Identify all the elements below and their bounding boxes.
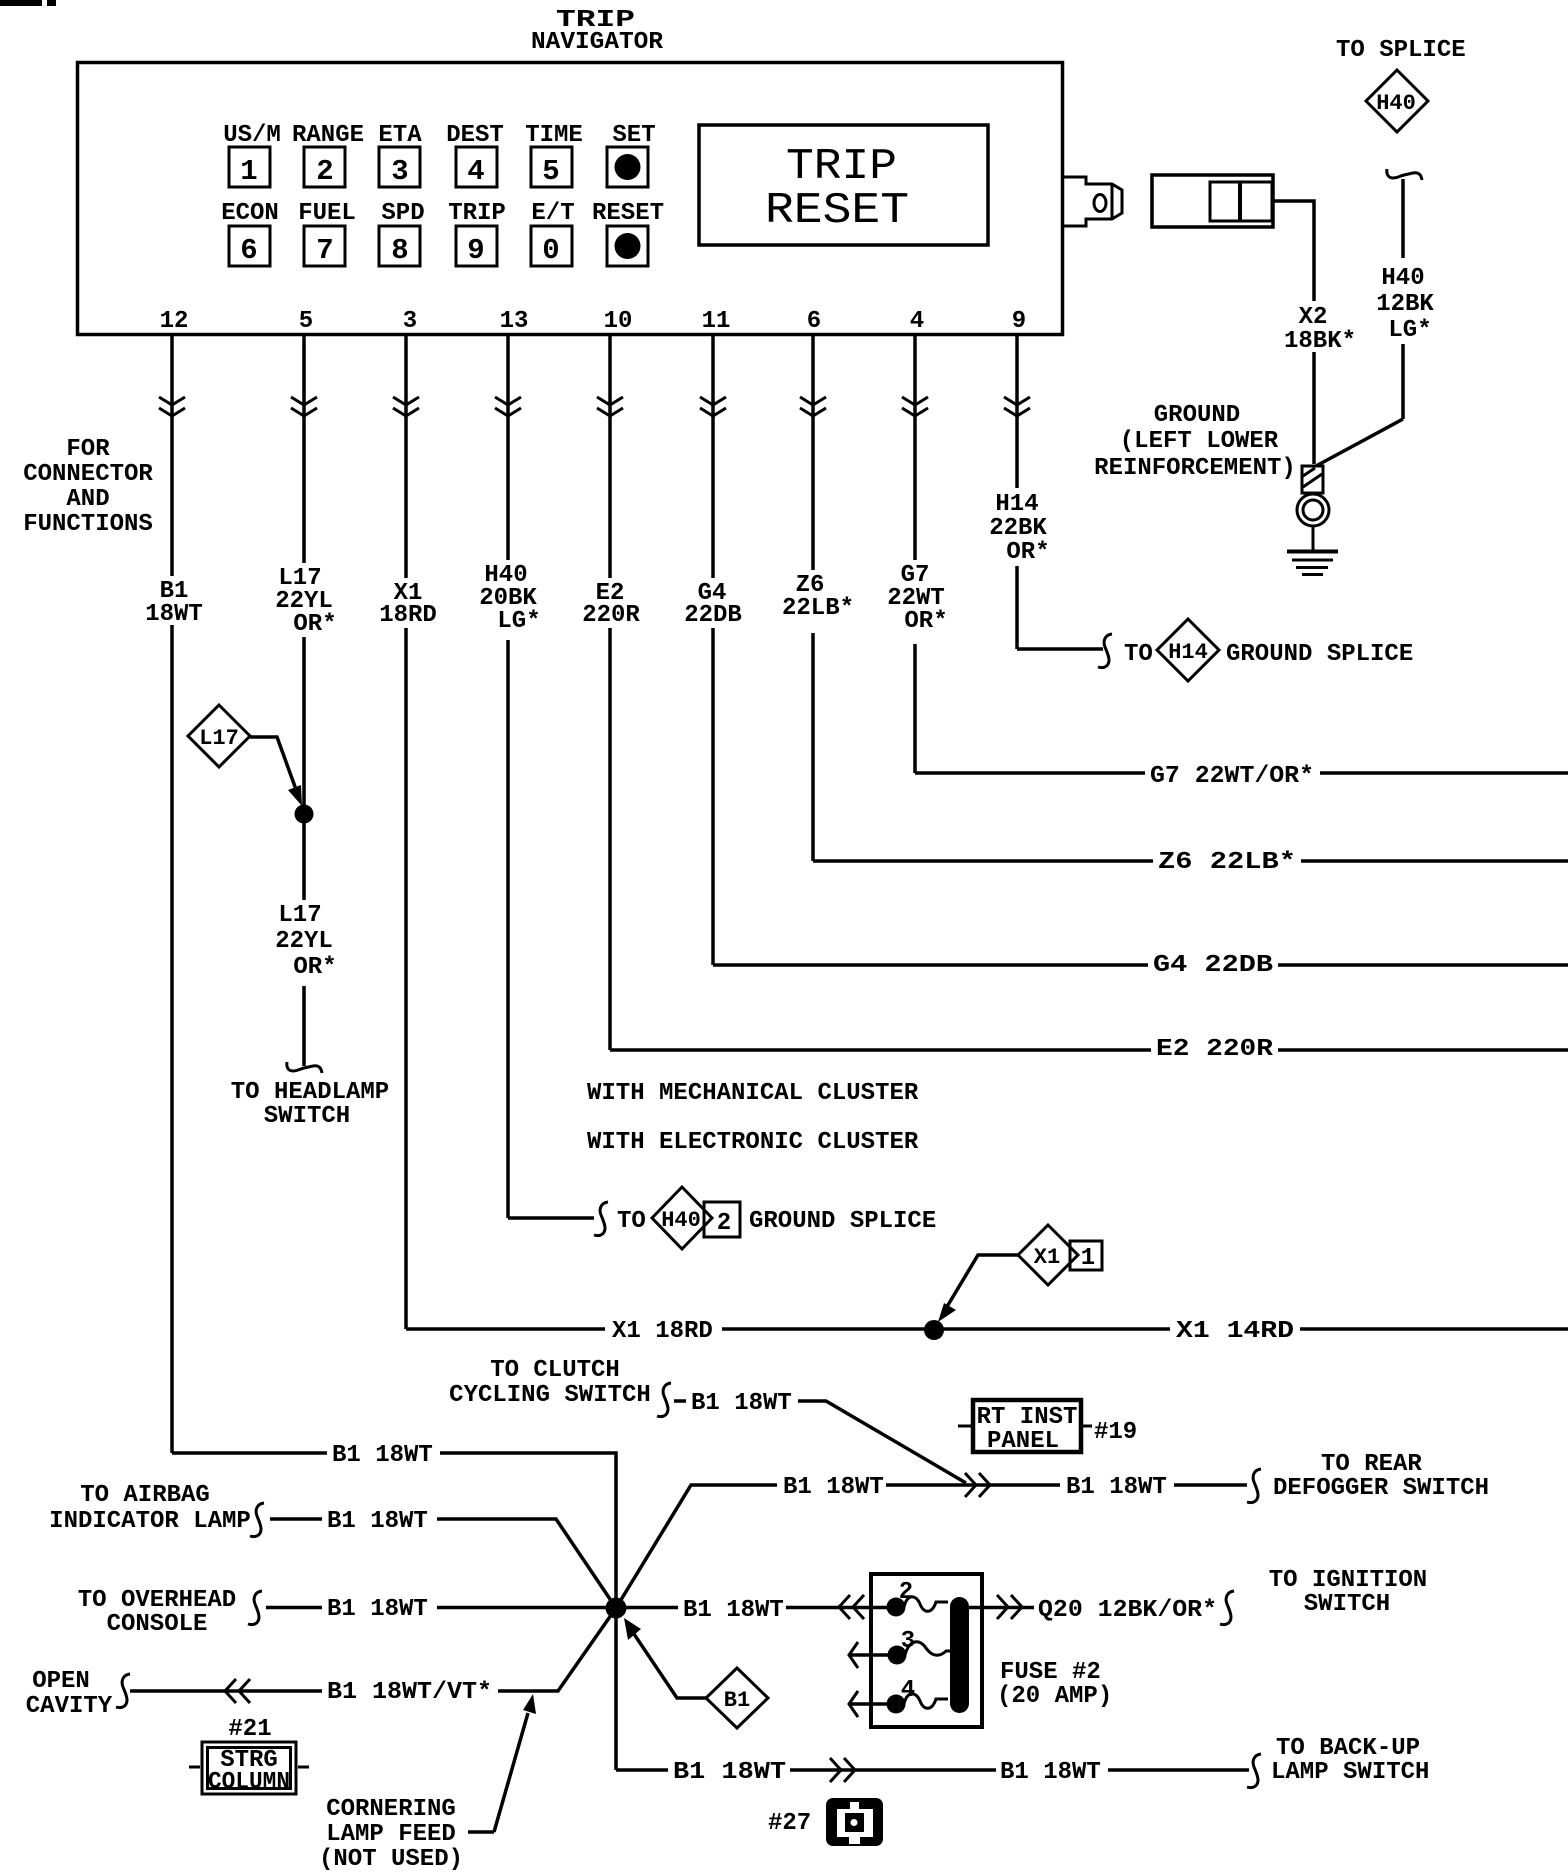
svg-text:1: 1 [240, 155, 257, 188]
splice symbol L17 [188, 705, 250, 767]
svg-text:RESET: RESET [765, 186, 909, 236]
break squiggle H14 [1098, 634, 1112, 668]
inline connector chevron to fuse [839, 1595, 864, 1619]
svg-text:22BK: 22BK [989, 515, 1047, 542]
label X2 18BK* [1284, 304, 1356, 355]
svg-text:LG*: LG* [1388, 317, 1431, 344]
text GROUND (LEFT LOWER REINFORCEMENT) [1094, 402, 1296, 482]
svg-text:22DB: 22DB [684, 602, 742, 629]
svg-text:B1 18WT: B1 18WT [691, 1390, 792, 1417]
wire B1 row from pin12 [172, 1453, 616, 1770]
splice symbol H40-2 [652, 1187, 740, 1249]
wire H40 12BK LG* [1316, 179, 1403, 466]
svg-text:(NOT USED): (NOT USED) [319, 1846, 463, 1873]
svg-text:OR*: OR* [1006, 539, 1049, 566]
wire G4 horizontal run [713, 963, 1568, 967]
svg-text:CORNERING: CORNERING [326, 1796, 456, 1823]
break squiggle H40-2 [594, 1202, 608, 1236]
svg-text:L17: L17 [278, 902, 321, 929]
svg-text:X1 14RD: X1 14RD [1176, 1318, 1294, 1345]
svg-text:TO BACK-UP: TO BACK-UP [1276, 1735, 1420, 1762]
fuse terminal 4 [887, 1695, 906, 1714]
label L17 22YL OR* lower [275, 902, 336, 981]
svg-text:GROUND SPLICE: GROUND SPLICE [749, 1208, 936, 1235]
svg-text:DEST: DEST [446, 122, 504, 149]
svg-text:TRIP: TRIP [448, 200, 506, 227]
connector chevron pin9 [1004, 397, 1030, 416]
svg-text:OR*: OR* [293, 954, 336, 981]
label E2 220R [582, 580, 640, 629]
text TO BACK-UP LAMP SWITCH [1271, 1735, 1429, 1786]
svg-text:8: 8 [391, 234, 408, 267]
svg-text:H40: H40 [661, 1208, 701, 1233]
svg-text:TO AIRBAG: TO AIRBAG [80, 1482, 210, 1509]
svg-text:18WT: 18WT [145, 601, 203, 628]
title TRIP NAVIGATOR [531, 7, 664, 56]
svg-text:B1 18WT/VT*: B1 18WT/VT* [327, 1679, 492, 1706]
wire pin4 G7 vertical [913, 335, 917, 773]
svg-text:(LEFT LOWER: (LEFT LOWER [1120, 428, 1279, 455]
display TRIP RESET [699, 125, 988, 245]
inline connector chevron backup [830, 1758, 855, 1782]
svg-text:B1 18WT: B1 18WT [327, 1596, 428, 1623]
svg-text:2: 2 [717, 1210, 731, 1237]
wire fuse pin3 stub [849, 1642, 888, 1668]
svg-text:TO SPLICE: TO SPLICE [1336, 37, 1466, 64]
svg-text:7: 7 [316, 234, 333, 267]
splice symbol B1 [706, 1668, 768, 1728]
inline connector chevron defogger [965, 1473, 990, 1497]
svg-text:TRIP: TRIP [786, 142, 897, 192]
svg-text:H14: H14 [995, 491, 1038, 518]
splice symbol H40 top [1366, 70, 1428, 132]
svg-text:GROUND SPLICE: GROUND SPLICE [1226, 641, 1413, 668]
svg-text:RT INST: RT INST [977, 1404, 1078, 1431]
connector chevron pin4 [902, 397, 928, 416]
svg-text:PANEL: PANEL [987, 1428, 1059, 1455]
leader arrow X1 to node [938, 1255, 1018, 1322]
button 0 [531, 226, 572, 267]
text TO AIRBAG INDICATOR LAMP [49, 1482, 251, 1535]
wire pin13 H40 vertical [506, 335, 510, 1218]
label H40 12BK LG* [1376, 265, 1434, 344]
svg-text:3: 3 [403, 308, 417, 335]
svg-text:B1 18WT: B1 18WT [683, 1597, 784, 1624]
svg-text:E2 220R: E2 220R [1156, 1036, 1274, 1063]
wire backup row B1 18WT [616, 1768, 1249, 1772]
button RESET [607, 226, 648, 266]
svg-text:#19: #19 [1094, 1419, 1137, 1446]
svg-text:TO IGNITION: TO IGNITION [1269, 1567, 1427, 1594]
button 2 [304, 147, 345, 188]
svg-text:WITH MECHANICAL CLUSTER: WITH MECHANICAL CLUSTER [587, 1080, 919, 1107]
svg-text:DEFOGGER SWITCH: DEFOGGER SWITCH [1273, 1475, 1489, 1502]
fuse element 4 [904, 1694, 948, 1708]
svg-text:4: 4 [910, 308, 924, 335]
svg-text:TO: TO [1124, 641, 1153, 668]
wire Z6 horizontal run [813, 859, 1568, 863]
svg-text:LG*: LG* [497, 608, 540, 635]
svg-text:TO: TO [617, 1208, 646, 1235]
button 3 [379, 147, 420, 188]
svg-text:5: 5 [299, 308, 313, 335]
svg-text:12BK: 12BK [1376, 291, 1434, 318]
wire overhead B1 18WT [266, 1606, 606, 1610]
svg-text:SWITCH: SWITCH [1304, 1591, 1390, 1618]
connector tab on module [1064, 177, 1122, 226]
ground symbol (left lower reinforcement) [1287, 526, 1338, 575]
svg-text:FUEL: FUEL [298, 200, 356, 227]
svg-text:9: 9 [467, 234, 484, 267]
svg-text:ETA: ETA [378, 122, 422, 149]
wire junction to fuse B1 18WT [626, 1606, 888, 1610]
wire airbag B1 18WT [270, 1519, 616, 1608]
svg-text:22YL: 22YL [275, 928, 333, 955]
text TO OVERHEAD CONSOLE [78, 1587, 236, 1638]
svg-text:FUSE #2: FUSE #2 [1000, 1659, 1101, 1686]
wire defogger row B1 18WT [616, 1485, 1247, 1608]
svg-text:6: 6 [807, 308, 821, 335]
button 9 [456, 226, 497, 267]
wire pin10 E2 vertical [608, 335, 612, 1050]
leader arrow B1 to junction [624, 1618, 706, 1698]
svg-text:B1 18WT: B1 18WT [673, 1759, 786, 1786]
connector icon #27 [826, 1798, 883, 1846]
label G4 22DB [684, 580, 742, 629]
svg-text:OPEN: OPEN [32, 1668, 90, 1695]
svg-text:12: 12 [160, 308, 189, 335]
inline connector chevron Q20 [997, 1595, 1022, 1619]
connector chevron pin5 [291, 397, 317, 416]
corner crop mark [0, 0, 42, 6]
wire break hook headlamp [287, 1062, 322, 1073]
wire X1 horizontal run [406, 1327, 1568, 1331]
svg-text:CAVITY: CAVITY [26, 1693, 113, 1720]
svg-text:LAMP FEED: LAMP FEED [326, 1821, 456, 1848]
svg-text:TIME: TIME [525, 122, 583, 149]
svg-text:1: 1 [1081, 1245, 1095, 1272]
button 4 [456, 147, 497, 188]
svg-text:SET: SET [612, 122, 655, 149]
text TO REAR DEFOGGER SWITCH [1273, 1451, 1489, 1502]
svg-text:TO OVERHEAD: TO OVERHEAD [78, 1587, 236, 1614]
svg-text:H14: H14 [1168, 640, 1208, 665]
svg-text:3: 3 [391, 155, 408, 188]
break squiggle backup [1247, 1754, 1261, 1788]
svg-text:AND: AND [66, 486, 109, 513]
svg-text:NAVIGATOR: NAVIGATOR [531, 29, 664, 56]
break squiggle overhead [248, 1591, 262, 1625]
break squiggle defogger [1247, 1469, 1261, 1503]
svg-text:L17: L17 [199, 726, 239, 751]
svg-text:FOR: FOR [66, 436, 110, 463]
svg-text:GROUND: GROUND [1154, 402, 1240, 429]
node L17 junction dot [295, 805, 314, 824]
button 1 [229, 147, 270, 188]
svg-text:OR*: OR* [293, 611, 336, 638]
break squiggle clutch [657, 1383, 671, 1417]
wire G7 horizontal run [915, 771, 1568, 775]
svg-text:FUNCTIONS: FUNCTIONS [23, 511, 153, 538]
splice symbol X1-1 [1018, 1225, 1102, 1285]
svg-text:WITH ELECTRONIC CLUSTER: WITH ELECTRONIC CLUSTER [587, 1129, 919, 1156]
svg-text:Q20 12BK/OR*: Q20 12BK/OR* [1038, 1597, 1217, 1624]
wire H40 to ground splice [508, 1216, 594, 1220]
svg-text:X1 18RD: X1 18RD [612, 1318, 713, 1345]
svg-text:22LB*: 22LB* [782, 595, 854, 622]
label G7 22WT OR* [887, 562, 947, 635]
svg-text:RANGE: RANGE [292, 122, 364, 149]
text TO HEADLAMP SWITCH [231, 1079, 389, 1130]
svg-text:TO HEADLAMP: TO HEADLAMP [231, 1079, 389, 1106]
button SET [607, 147, 648, 187]
connector chevron pin3 [393, 397, 419, 416]
svg-text:9: 9 [1012, 308, 1026, 335]
svg-text:RESET: RESET [592, 200, 664, 227]
connector plug X2 [1152, 175, 1273, 227]
svg-text:TO CLUTCH: TO CLUTCH [490, 1357, 620, 1384]
button 8 [379, 226, 420, 267]
fuse bus bar [950, 1597, 969, 1713]
svg-text:LAMP SWITCH: LAMP SWITCH [1271, 1759, 1429, 1786]
svg-text:B1 18WT: B1 18WT [332, 1442, 433, 1469]
svg-text:COLUMN: COLUMN [208, 1769, 290, 1796]
svg-text:B1 18WT: B1 18WT [1000, 1759, 1101, 1786]
button 6 [229, 226, 270, 267]
svg-text:E/T: E/T [531, 200, 574, 227]
svg-text:REINFORCEMENT): REINFORCEMENT) [1094, 455, 1296, 482]
wire clutch B1 18WT [674, 1401, 966, 1483]
svg-text:INDICATOR LAMP: INDICATOR LAMP [49, 1508, 251, 1535]
label H40 20BK LG* [479, 562, 540, 635]
svg-text:CYCLING SWITCH: CYCLING SWITCH [449, 1382, 651, 1409]
svg-text:US/M: US/M [223, 122, 281, 149]
break squiggle open cavity [116, 1674, 130, 1708]
svg-text:CONNECTOR: CONNECTOR [23, 461, 153, 488]
wire fuse pin4 stub [849, 1691, 888, 1717]
svg-text:TO REAR: TO REAR [1321, 1451, 1422, 1478]
svg-text:0: 0 [542, 234, 559, 267]
leader arrow L17 to node [250, 737, 302, 806]
component fuse #2 block [871, 1574, 982, 1727]
svg-text:6: 6 [240, 234, 257, 267]
svg-text:SPD: SPD [381, 200, 424, 227]
label Z6 22LB* [782, 572, 854, 622]
label H14 22BK OR* [989, 491, 1049, 566]
svg-text:10: 10 [604, 308, 633, 335]
wire pin6 Z6 vertical [811, 335, 815, 861]
label L17 22YL OR* [275, 565, 336, 638]
text CORNERING LAMP FEED (NOT USED) [319, 1796, 463, 1873]
svg-text:B1: B1 [724, 1688, 750, 1713]
svg-text:5: 5 [542, 155, 559, 188]
text TO CLUTCH CYCLING SWITCH [449, 1357, 651, 1409]
ground eyelet terminal [1297, 466, 1329, 526]
connector chevron pin12 [159, 397, 185, 416]
svg-text:G7 22WT/OR*: G7 22WT/OR* [1150, 763, 1314, 790]
wire pin11 G4 vertical [711, 335, 715, 965]
svg-text:220R: 220R [582, 602, 640, 629]
text FOR CONNECTOR AND FUNCTIONS [23, 436, 153, 538]
break squiggle ignition [1220, 1591, 1234, 1625]
svg-text:18BK*: 18BK* [1284, 328, 1356, 355]
svg-text:H40: H40 [1376, 91, 1416, 116]
node X1 junction dot [924, 1320, 944, 1340]
svg-text:#21: #21 [228, 1716, 271, 1743]
svg-text:B1 18WT: B1 18WT [327, 1508, 428, 1535]
wire pin9 H14 vertical [1015, 335, 1019, 649]
fuse element 2 [904, 1597, 948, 1611]
button 5 [531, 147, 572, 188]
wire pin12 B1 vertical [170, 335, 174, 1453]
text OPEN CAVITY [26, 1668, 113, 1720]
svg-text:ECON: ECON [221, 200, 279, 227]
inline connector chevron open cavity [225, 1679, 250, 1703]
text TO IGNITION SWITCH [1269, 1567, 1427, 1618]
button 7 [304, 226, 345, 267]
component RT INST PANEL #19 [958, 1400, 1137, 1455]
wire break hook H40 [1387, 169, 1422, 180]
svg-text:OR*: OR* [904, 608, 947, 635]
wire pin5 L17 vertical [302, 335, 306, 1066]
label B1 18WT [145, 578, 203, 628]
node B1 splice junction [606, 1598, 627, 1619]
wire pin3 X1 vertical [404, 335, 408, 1329]
svg-text:G4 22DB: G4 22DB [1153, 952, 1273, 979]
svg-text:4: 4 [467, 155, 484, 188]
svg-text:H40: H40 [1381, 265, 1424, 292]
svg-text:B1 18WT: B1 18WT [783, 1474, 884, 1501]
svg-text:X2: X2 [1299, 304, 1328, 331]
svg-text:B1 18WT: B1 18WT [1066, 1474, 1167, 1501]
wire X2 to ground [1273, 201, 1314, 464]
svg-text:X1: X1 [1034, 1245, 1060, 1270]
fuse terminal 3 [888, 1646, 907, 1665]
connector chevron pin6 [800, 397, 826, 416]
connector chevron pin13 [495, 397, 521, 416]
connector chevron pin11 [700, 397, 726, 416]
text FUSE #2 (20 AMP) [997, 1659, 1112, 1710]
connector chevron pin10 [597, 397, 623, 416]
svg-text:(20 AMP): (20 AMP) [997, 1683, 1112, 1710]
leader arrow cornering lamp feed [468, 1694, 536, 1832]
fuse terminal 2 [887, 1598, 906, 1617]
svg-text:#27: #27 [768, 1810, 811, 1837]
svg-text:13: 13 [500, 308, 529, 335]
component STRG COLUMN [189, 1742, 309, 1796]
wire E2 horizontal run [610, 1048, 1568, 1052]
trip navigator module U1 box [78, 63, 1063, 335]
svg-text:CONSOLE: CONSOLE [107, 1611, 208, 1638]
svg-text:Z6 22LB*: Z6 22LB* [1158, 849, 1296, 876]
wire H14 to ground splice [1017, 647, 1103, 651]
label X1 18RD [379, 580, 437, 629]
svg-text:18RD: 18RD [379, 602, 437, 629]
svg-text:11: 11 [702, 308, 731, 335]
wire fuse output Q20 [969, 1606, 1034, 1610]
break squiggle airbag [250, 1503, 264, 1537]
splice symbol H14 [1157, 619, 1219, 681]
svg-text:2: 2 [316, 155, 333, 188]
wire open cavity B1 18WT/VT* [130, 1608, 616, 1691]
svg-text:SWITCH: SWITCH [264, 1103, 350, 1130]
fuse element 3 [905, 1642, 954, 1655]
